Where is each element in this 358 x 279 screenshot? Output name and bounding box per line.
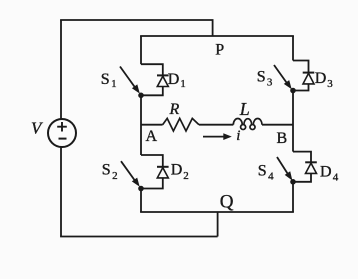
- svg-text:S: S: [258, 162, 267, 179]
- wire S2 step to D2: [141, 155, 163, 167]
- svg-text:D: D: [320, 163, 332, 180]
- voltage source plus sign: [57, 122, 67, 132]
- inductor L: [233, 118, 262, 129]
- wire S3 step to D3: [293, 61, 309, 73]
- wire resistor to inductor: [199, 124, 233, 126]
- switch S3 blade: [274, 65, 292, 89]
- svg-text:4: 4: [268, 171, 274, 183]
- wire left leg top: [140, 36, 142, 64]
- wire S4 step to D4: [293, 152, 311, 163]
- wire S1 step to D1: [141, 64, 163, 75]
- wire D4 bottom to node: [293, 173, 311, 181]
- wire outer left (top): [60, 20, 62, 120]
- wire D1 bottom to node: [141, 87, 163, 96]
- svg-text:D: D: [171, 161, 183, 178]
- svg-text:1: 1: [111, 78, 117, 90]
- current arrow i: [203, 133, 232, 140]
- junction dot S2-D2: [138, 186, 144, 192]
- wire D3 bottom to node: [293, 84, 309, 91]
- wire inner top rail: [140, 35, 294, 37]
- wire right drop from outer top: [212, 20, 214, 36]
- diode D2: [157, 167, 169, 178]
- voltage source V circle: [48, 119, 76, 147]
- junction dot S1-D1: [138, 93, 144, 99]
- svg-text:D: D: [315, 70, 327, 87]
- wire right leg bottom: [292, 182, 294, 212]
- svg-text:3: 3: [267, 77, 273, 89]
- wire left leg bottom: [140, 189, 142, 213]
- svg-text:S: S: [102, 161, 111, 178]
- svg-text:B: B: [277, 130, 288, 147]
- diode D1: [157, 75, 169, 86]
- svg-text:2: 2: [112, 170, 118, 182]
- switch S4 blade: [277, 157, 292, 181]
- wire right leg middle: [292, 91, 294, 152]
- switch S2 blade: [121, 161, 140, 187]
- svg-text:3: 3: [327, 78, 333, 90]
- svg-text:R: R: [169, 101, 180, 118]
- voltage source minus sign: [59, 138, 67, 140]
- wire right leg top: [292, 36, 294, 61]
- wire left leg middle: [140, 95, 142, 155]
- wire D2 bottom to node: [141, 178, 163, 189]
- svg-text:D: D: [168, 71, 180, 88]
- resistor R: [163, 118, 199, 131]
- svg-text:4: 4: [333, 172, 339, 184]
- junction dot S4-D4: [290, 179, 296, 185]
- svg-text:L: L: [239, 99, 250, 119]
- wire node A to resistor: [141, 124, 163, 126]
- svg-text:V: V: [31, 119, 44, 138]
- wire inductor to node B: [262, 124, 293, 126]
- wire outer top: [60, 19, 213, 21]
- svg-text:Q: Q: [220, 191, 234, 212]
- svg-text:P: P: [215, 42, 224, 59]
- wire outer bottom riser: [217, 212, 219, 237]
- svg-text:2: 2: [183, 170, 189, 182]
- svg-text:1: 1: [180, 78, 186, 90]
- wire inner bottom rail: [140, 211, 294, 213]
- wire outer left (bottom): [60, 147, 62, 237]
- svg-text:S: S: [101, 71, 110, 88]
- svg-text:A: A: [146, 128, 158, 145]
- junction dot S3-D3: [290, 88, 296, 94]
- diode D4: [305, 162, 317, 173]
- svg-text:i: i: [236, 128, 240, 144]
- wire outer bottom: [60, 236, 218, 238]
- switch S1 blade: [120, 67, 140, 94]
- svg-text:S: S: [257, 69, 266, 86]
- diode D3: [303, 73, 315, 84]
